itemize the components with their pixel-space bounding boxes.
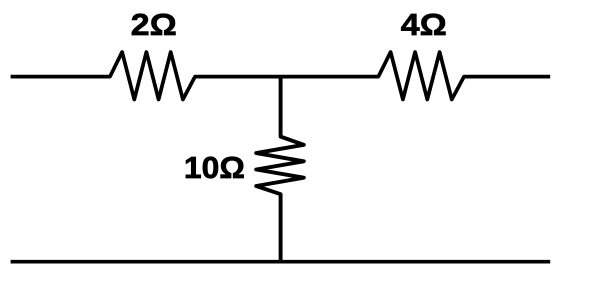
- svg-text:10Ω: 10Ω: [184, 150, 245, 185]
- svg-text:2Ω: 2Ω: [131, 7, 177, 42]
- svg-text:4Ω: 4Ω: [401, 7, 447, 42]
